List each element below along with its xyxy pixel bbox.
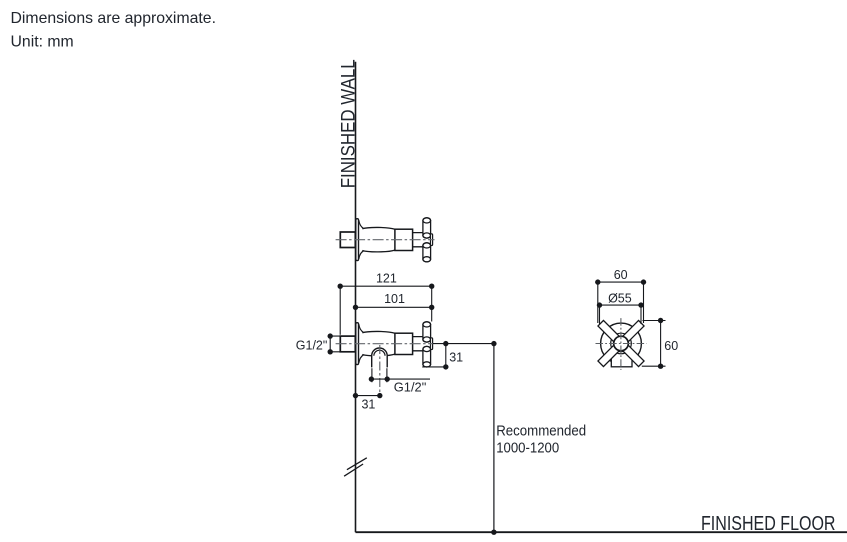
lower valve stem: [413, 337, 423, 351]
top valve stem: [413, 233, 423, 247]
svg-text:60: 60: [614, 268, 628, 282]
dim 101 extension line right: [431, 286, 433, 321]
dim G1/2 inlet: line and dots: [329, 336, 331, 352]
svg-text:FINISHED FLOOR: FINISHED FLOOR: [701, 513, 836, 535]
svg-text:31: 31: [361, 397, 375, 411]
dim 60 top: line and dots: [598, 281, 644, 283]
dim 31 right: line and dots: [445, 344, 447, 367]
dim 121 line: [340, 285, 432, 287]
dim G1/2 inlet: ticks: [330, 336, 355, 352]
finished floor line: [356, 531, 847, 533]
lower valve handle upper arm cylinder: [423, 322, 431, 342]
svg-text:Ø55: Ø55: [608, 291, 632, 305]
dim 101 line: [356, 306, 432, 308]
front view cross handle arms: [598, 320, 644, 366]
lower valve handle front arm end: [431, 338, 433, 350]
top valve body: [362, 227, 395, 251]
svg-text:Dimensions are approximate.: Dimensions are approximate.: [11, 10, 216, 27]
dim 31 right: top tick to recommended line: [433, 343, 494, 345]
svg-text:31: 31: [449, 350, 463, 364]
dim 31 bottom: line and dots: [356, 395, 380, 397]
top valve centerline: [336, 239, 435, 241]
lower valve outlet elbow inner arc: [374, 350, 385, 356]
lower valve inlet stub: [340, 336, 355, 352]
dim O55: line and dots: [600, 304, 642, 306]
lower valve spout centerline: [379, 345, 381, 398]
top valve escutcheon flange: [356, 219, 364, 261]
lower valve centerline: [336, 343, 433, 345]
lower valve outlet elbow: [372, 348, 388, 367]
lower valve body: [362, 331, 395, 355]
svg-text:121: 121: [376, 272, 397, 286]
dim 60 top: extension lines: [598, 282, 644, 323]
front view crosshair centerlines: [596, 318, 647, 370]
svg-text:G1/2": G1/2": [296, 337, 328, 352]
svg-text:60: 60: [664, 339, 678, 353]
front view hub ring: [611, 333, 632, 354]
dim 121 extension line left: [339, 286, 341, 335]
top valve inlet stub: [340, 232, 355, 248]
top valve bonnet block: [395, 229, 413, 250]
top valve handle front arm end: [431, 234, 433, 246]
lower valve escutcheon flange: [356, 323, 364, 365]
front view hub: [614, 336, 629, 351]
svg-text:G1/2": G1/2": [394, 379, 427, 394]
lower valve handle lower arm cylinder: [423, 346, 431, 367]
recommended height line: [493, 344, 495, 533]
svg-text:Recommended: Recommended: [496, 424, 586, 440]
dim G1/2 outlet: extension lines: [372, 368, 387, 382]
svg-text:101: 101: [384, 292, 405, 306]
front view lower body rect: [611, 352, 632, 367]
dim 60 right: ticks: [642, 321, 666, 367]
dim G1/2 outlet: line and dots: [371, 378, 430, 380]
top valve handle upper arm cylinder: [423, 218, 431, 238]
svg-text:1000-1200: 1000-1200: [496, 440, 559, 456]
lower valve bonnet block: [395, 333, 413, 354]
dim O55: extension lines: [600, 305, 642, 324]
dim 31 right: bottom tick: [422, 366, 448, 368]
finished wall line: [355, 62, 357, 533]
wall break symbol: [344, 458, 367, 476]
front view escutcheon circle: [601, 323, 642, 364]
svg-text:FINISHED WALL: FINISHED WALL: [339, 59, 360, 188]
dim 60 right: line and dots: [660, 321, 662, 367]
top valve handle lower arm cylinder: [423, 243, 431, 262]
svg-text:Unit: mm: Unit: mm: [11, 34, 74, 51]
